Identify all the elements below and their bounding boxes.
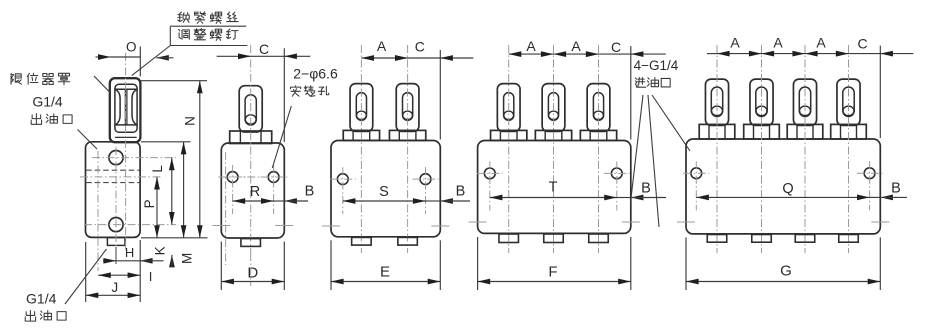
svg-text:G1/4: G1/4	[26, 290, 57, 306]
dimension L	[171, 158, 173, 225]
view1 horizontal centerline inlet port	[80, 176, 161, 178]
svg-text:4−G1/4: 4−G1/4	[634, 58, 679, 73]
dimension H	[116, 260, 140, 262]
view3 span dimension S	[343, 200, 426, 202]
view2 dimension B	[274, 200, 285, 202]
view4 top dimension row	[630, 46, 632, 139]
view3 dimension B	[426, 200, 441, 202]
view1 vertical centerline plunger axis	[125, 53, 127, 250]
view1 upper outlet port circle	[109, 151, 123, 165]
svg-text:I: I	[149, 269, 153, 284]
view4 dimension B	[617, 197, 631, 199]
view3 plunger axes centerlines	[360, 45, 362, 253]
view4 mounting hole left	[484, 168, 495, 179]
svg-text:A: A	[730, 34, 740, 50]
svg-text:B: B	[891, 180, 901, 196]
view3 top dimension row	[439, 50, 441, 140]
view2 plunger axis lower extension	[250, 253, 252, 286]
dimension I	[139, 240, 141, 302]
label 限位器罩 with leader to cage	[11, 74, 21, 84]
view2 bottom width dimension	[220, 242, 222, 291]
svg-text:Q: Q	[782, 181, 793, 197]
dimension P	[156, 177, 158, 238]
view1 cage lower lip line	[115, 136, 137, 138]
view4 span dimension T	[490, 197, 617, 199]
view5 hole centermarks	[683, 172, 709, 174]
label 调整螺钉 with underline and leader to cage	[179, 29, 190, 39]
svg-text:C: C	[857, 35, 867, 51]
view3 bottom bosses	[352, 237, 372, 245]
svg-text:A: A	[773, 34, 783, 50]
view2 span dimension R	[233, 200, 274, 202]
svg-text:N: N	[182, 116, 197, 126]
svg-text:P: P	[142, 199, 157, 208]
svg-text:A: A	[571, 38, 581, 54]
dimension N	[141, 80, 207, 82]
view1 roller spool inside window	[115, 89, 136, 125]
view1 roller center stem	[124, 89, 126, 125]
svg-text:O: O	[126, 39, 137, 54]
view5 mounting hole right	[864, 168, 875, 179]
svg-text:G1/4: G1/4	[32, 94, 63, 110]
svg-text:D: D	[247, 265, 258, 282]
view1 horizontal centerline upper port	[92, 157, 176, 159]
view1 hidden inlet passage dashed lines	[86, 169, 139, 171]
dimension O	[139, 47, 141, 77]
svg-text:A: A	[377, 38, 387, 54]
view1 cage inner window	[115, 84, 137, 132]
view2 mounting hole right	[268, 172, 279, 183]
svg-text:H: H	[125, 245, 134, 260]
view3 side port marks	[322, 225, 340, 227]
svg-text:C: C	[259, 41, 269, 57]
view5 mounting hole left	[691, 168, 702, 179]
view3 bottom width dimension	[330, 240, 332, 290]
view3 hole centermarks	[330, 178, 356, 180]
svg-text:E: E	[380, 264, 390, 281]
view5 bottom width dimension	[685, 237, 687, 290]
svg-text:C: C	[415, 38, 425, 54]
svg-text:F: F	[548, 264, 557, 281]
view5 side port marks	[677, 221, 695, 223]
svg-text:C: C	[611, 39, 621, 55]
svg-text:T: T	[549, 179, 558, 195]
view3 plungers	[350, 84, 373, 132]
view3 body block	[331, 141, 440, 237]
view2 extra left port axis	[225, 152, 227, 265]
view2 bottom bosses	[241, 239, 261, 247]
view3 mounting hole right	[420, 174, 431, 185]
svg-text:2−φ6.6: 2−φ6.6	[293, 66, 338, 82]
view1 vertical centerline inlet axis	[97, 151, 99, 271]
svg-text:J: J	[111, 280, 118, 295]
view4 body block	[478, 141, 631, 234]
view4 bottom width dimension	[477, 237, 479, 290]
view4 plungers	[497, 84, 520, 132]
view5 body block	[686, 139, 880, 234]
dimension M	[141, 141, 191, 143]
dimension K	[169, 255, 175, 268]
view4 bottom bosses	[499, 234, 519, 243]
view2 hole centermarks	[220, 176, 246, 178]
view3 mounting hole left	[337, 174, 348, 185]
svg-text:R: R	[250, 184, 260, 200]
view1 lower outlet port circle	[109, 218, 123, 232]
svg-text:M: M	[180, 253, 195, 264]
view2 side port marks	[212, 225, 230, 227]
view5 plunger axes centerlines	[716, 45, 718, 253]
view5 span dimension Q	[696, 196, 869, 198]
svg-text:B: B	[305, 183, 315, 199]
view1 bottom boss	[107, 238, 125, 246]
svg-text:A: A	[816, 34, 826, 50]
view5 bottom bosses	[707, 235, 727, 243]
svg-text:B: B	[641, 181, 651, 197]
svg-text:S: S	[379, 184, 389, 200]
view2 body block	[221, 143, 284, 238]
view4 side port marks	[469, 221, 487, 223]
view2 mounting hole left	[227, 172, 238, 183]
label 锁紧螺丝 with underline	[178, 12, 189, 22]
svg-text:L: L	[150, 165, 165, 173]
view1 limit-roller cage (限位器罩) outer	[110, 78, 141, 142]
view5 top dimension row	[879, 46, 881, 138]
svg-text:K: K	[153, 246, 168, 255]
svg-text:G: G	[780, 263, 792, 280]
view2 top dimension row	[283, 48, 285, 142]
view4 hole centermarks	[477, 172, 503, 174]
view1 vertical centerline port axis	[115, 147, 117, 247]
svg-text:A: A	[526, 38, 536, 54]
view5 dimension B	[870, 196, 881, 198]
view5 plungers	[705, 79, 728, 125]
dimension J	[85, 242, 87, 302]
view1 horizontal centerline lower port	[84, 224, 176, 226]
view1 body block	[86, 142, 141, 238]
svg-text:B: B	[456, 184, 466, 200]
view2 plunger axes centerlines	[250, 45, 252, 253]
view4 plunger axes centerlines	[508, 45, 510, 253]
view4 mounting hole right	[611, 168, 622, 179]
view2 plungers	[239, 86, 262, 132]
